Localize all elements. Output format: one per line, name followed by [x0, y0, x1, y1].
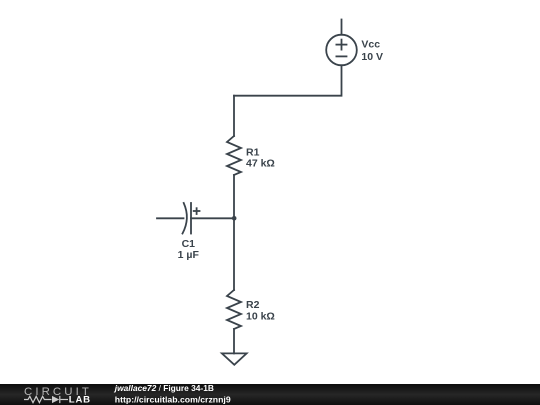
svg-text:C1: C1 — [182, 238, 196, 250]
plus sign inside Vcc — [336, 44, 346, 46]
capacitor C1 plus sign — [194, 210, 200, 212]
node junction dot — [232, 216, 237, 221]
wire C1 to node — [191, 217, 234, 219]
resistor R1 — [227, 136, 241, 175]
svg-text:10 V: 10 V — [361, 51, 383, 63]
ground — [222, 353, 247, 364]
wire node down to R2 — [233, 218, 235, 290]
wire Vcc top terminal — [341, 20, 343, 35]
svg-text:R2: R2 — [246, 299, 260, 311]
capacitor C1 straight plate — [190, 203, 192, 234]
wire Vcc bottom to corner — [234, 65, 342, 95]
capacitor C1 curved plate — [183, 203, 187, 234]
voltage source Vcc — [326, 35, 357, 66]
svg-text:jwallace72 / Figure 34-1B: jwallace72 / Figure 34-1B — [114, 383, 214, 393]
minus sign inside Vcc — [336, 55, 346, 57]
svg-text:http://circuitlab.com/crznnj9: http://circuitlab.com/crznnj9 — [115, 394, 231, 404]
wire corner down to R1 — [233, 96, 235, 136]
svg-text:LAB: LAB — [69, 394, 91, 405]
svg-text:10 kΩ: 10 kΩ — [246, 311, 275, 323]
capacitor C1 left wire — [157, 217, 184, 219]
wire R2 bottom to ground — [233, 329, 235, 353]
CircuitLab logo waveform — [24, 396, 68, 403]
svg-text:1 µF: 1 µF — [178, 249, 200, 261]
resistor R2 — [227, 290, 241, 329]
svg-text:47 kΩ: 47 kΩ — [246, 158, 275, 170]
wire R1 bottom to node — [233, 175, 235, 218]
svg-text:Vcc: Vcc — [361, 39, 380, 51]
